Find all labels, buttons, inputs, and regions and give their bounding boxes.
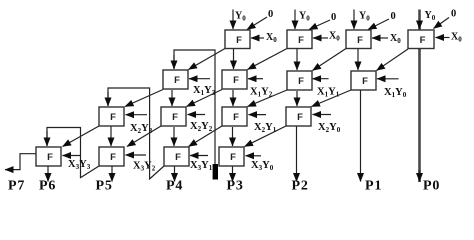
svg-text:P1: P1 [365, 179, 382, 191]
svg-text:P3: P3 [227, 179, 244, 191]
svg-text:F: F [298, 35, 304, 46]
svg-text:F: F [420, 35, 426, 46]
svg-text:0: 0 [331, 12, 336, 23]
svg-text:P0: P0 [423, 179, 440, 191]
svg-text:F: F [298, 76, 304, 87]
svg-text:F: F [175, 152, 181, 163]
svg-text:P7: P7 [8, 179, 25, 191]
svg-text:F: F [357, 35, 363, 46]
svg-text:0: 0 [451, 9, 456, 20]
svg-text:P5: P5 [96, 179, 113, 191]
svg-text:F: F [233, 75, 239, 86]
svg-text:F: F [233, 112, 239, 123]
svg-text:P2: P2 [292, 179, 309, 191]
svg-text:F: F [362, 76, 368, 87]
svg-text:F: F [110, 152, 116, 163]
svg-text:F: F [110, 112, 116, 123]
svg-text:F: F [236, 35, 242, 46]
svg-text:0: 0 [391, 11, 396, 22]
svg-text:F: F [47, 152, 53, 163]
svg-text:F: F [172, 112, 178, 123]
svg-text:F: F [174, 75, 180, 86]
svg-text:P6: P6 [39, 179, 56, 191]
svg-text:0: 0 [268, 9, 273, 20]
svg-text:F: F [297, 112, 303, 123]
svg-text:P4: P4 [166, 179, 183, 191]
svg-text:F: F [230, 152, 236, 163]
